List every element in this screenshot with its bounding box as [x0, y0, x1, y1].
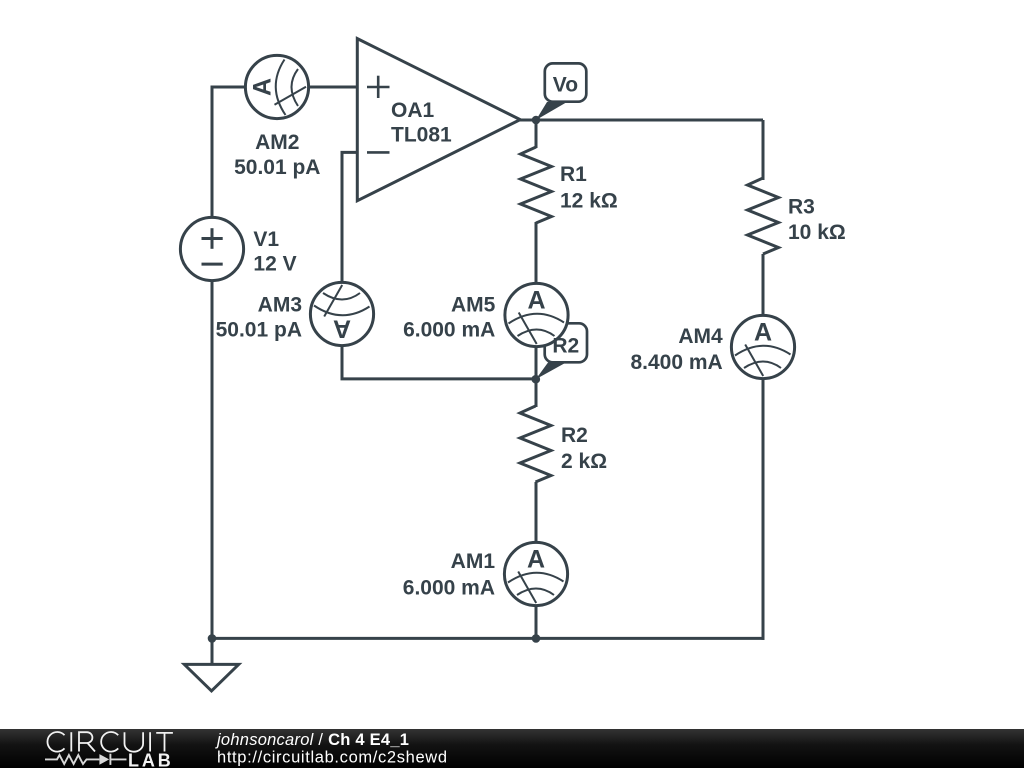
svg-text:Vo: Vo [553, 74, 578, 97]
node Vo flag pointer [536, 102, 567, 120]
wire AM2 right to op-amp + input [309, 86, 358, 89]
CircuitLab logo diode triangle [99, 754, 109, 765]
wire R2 bottom to AM1 top [535, 482, 538, 542]
svg-text:50.01 pA: 50.01 pA [216, 319, 302, 342]
wire R1 bottom to AM5 top [535, 222, 538, 284]
svg-text:6.000 mA: 6.000 mA [403, 576, 495, 599]
svg-text:12 kΩ: 12 kΩ [560, 189, 618, 212]
wire R3 bottom to AM4 top [762, 254, 765, 316]
wire V1 bottom to ground rail [211, 281, 214, 638]
svg-text:10 kΩ: 10 kΩ [788, 221, 846, 244]
CircuitLab logo resistor-diode glyph [45, 754, 127, 765]
resistor R1 [521, 147, 552, 223]
svg-text:V1: V1 [253, 228, 279, 251]
svg-text:AM2: AM2 [255, 131, 299, 154]
ammeter AM3 [310, 282, 373, 345]
svg-text:2 kΩ: 2 kΩ [561, 450, 607, 473]
svg-text:OA1: OA1 [391, 99, 435, 122]
junction at ground rail below AM1 [532, 634, 541, 643]
svg-text:6.000 mA: 6.000 mA [403, 319, 495, 342]
voltage source V1 [180, 217, 243, 280]
wire AM5 bottom to R2 top through junction [535, 346, 538, 407]
svg-text:LAB: LAB [128, 750, 174, 768]
svg-text:johnsoncarol / Ch 4 E4_1: johnsoncarol / Ch 4 E4_1 [215, 731, 409, 749]
ground [184, 638, 238, 691]
ammeter AM4 [731, 315, 794, 378]
ammeter AM5 [505, 283, 568, 346]
resistor R2 [520, 406, 551, 482]
svg-text:R2: R2 [561, 424, 588, 447]
wire op-amp output to right corner [519, 119, 763, 122]
wire AM1 bottom to ground rail [535, 605, 538, 638]
ammeter AM2 [245, 55, 308, 118]
svg-text:R3: R3 [788, 196, 815, 219]
svg-text:50.01 pA: 50.01 pA [234, 156, 320, 179]
junction at ground rail left [208, 634, 217, 643]
wire left column top: V1 top to corner to AM2 left [212, 87, 245, 217]
svg-text:AM5: AM5 [451, 294, 496, 317]
wire bottom ground rail [212, 637, 765, 640]
svg-text:R2: R2 [552, 335, 579, 358]
svg-text:R1: R1 [560, 163, 587, 186]
wire AM4 bottom to bottom-right corner [762, 378, 765, 640]
footer bar [0, 729, 1024, 768]
wire AM3 bottom to junction below AM5 [342, 346, 536, 379]
svg-text:TL081: TL081 [391, 124, 452, 147]
svg-text:AM1: AM1 [451, 550, 496, 573]
resistor R3 [748, 178, 779, 254]
svg-text:8.400 mA: 8.400 mA [630, 351, 722, 374]
wire op-amp - input to AM3 top [342, 152, 357, 282]
node R2 flag [545, 323, 587, 362]
svg-text:12 V: 12 V [253, 253, 296, 276]
op-amp OA1 [357, 39, 520, 201]
svg-text:AM3: AM3 [258, 294, 302, 317]
ammeter AM1 [504, 542, 567, 605]
CircuitLab logo CIRCUIT word [47, 732, 172, 752]
junction below AM5 [532, 375, 541, 384]
node R2 flag pointer [536, 363, 566, 380]
svg-text:AM4: AM4 [678, 325, 723, 348]
wire right column to R3 [762, 120, 765, 180]
svg-text:http://circuitlab.com/c2shewd: http://circuitlab.com/c2shewd [217, 749, 448, 767]
junction at op-amp output node [532, 116, 541, 125]
wire output node down to R1 [535, 120, 538, 148]
node Vo flag [545, 63, 587, 101]
